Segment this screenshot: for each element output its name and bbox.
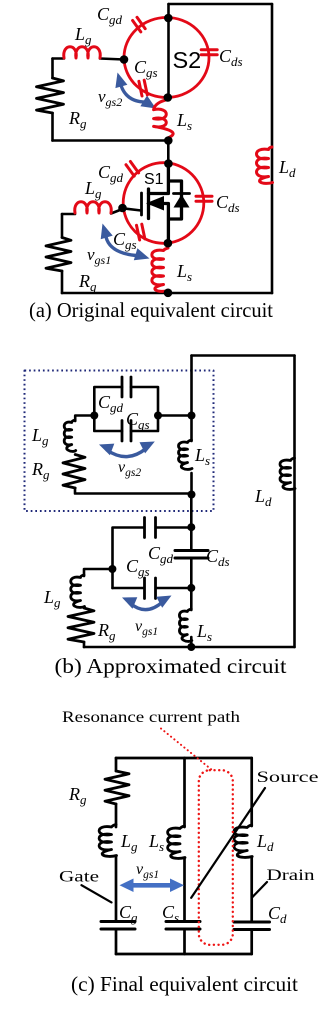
wire left node to Lg (b upper) bbox=[75, 416, 94, 422]
svg-text:Source: Source bbox=[257, 769, 319, 786]
wire S2 block spine bbox=[190, 356, 193, 496]
svg-text:Cgd: Cgd bbox=[97, 4, 123, 27]
svg-text:Cg: Cg bbox=[119, 902, 138, 925]
inductor Lg (b upper) bbox=[64, 420, 76, 451]
wire right rail (drain) bbox=[271, 4, 274, 293]
wire right rail (b) bbox=[293, 356, 296, 648]
node at (191.5,415.5) bbox=[188, 412, 196, 420]
svg-text:Lg: Lg bbox=[31, 425, 49, 448]
svg-text:Cgd: Cgd bbox=[98, 392, 124, 415]
wire gate node to spine (b upper) bbox=[158, 414, 192, 417]
wire spine between blocks (b) bbox=[190, 495, 193, 527]
svg-text:Cd: Cd bbox=[268, 903, 287, 926]
svg-text:vgs2: vgs2 bbox=[118, 459, 141, 479]
node at (167.9,243.2) bbox=[164, 239, 173, 248]
svg-text:Cds: Cds bbox=[216, 192, 240, 215]
capacitor Cgs loop (b upper) bbox=[94, 416, 158, 432]
wire S2 source return bbox=[53, 139, 169, 142]
svg-text:Ls: Ls bbox=[194, 445, 210, 468]
svg-text:Ls: Ls bbox=[196, 621, 212, 644]
svg-text:vgs2: vgs2 bbox=[98, 87, 122, 109]
svg-text:Lg: Lg bbox=[74, 24, 92, 47]
resistor Rg (b upper) bbox=[63, 455, 85, 489]
svg-text:Rg: Rg bbox=[97, 620, 116, 643]
capacitor Cgs branch (b lower) bbox=[113, 587, 192, 590]
svg-text:Cds: Cds bbox=[206, 546, 230, 569]
inductor Ls (b lower) bbox=[179, 609, 191, 641]
capacitor Cs bbox=[166, 920, 200, 923]
svg-text:(b) Approximated circuit: (b) Approximated circuit bbox=[55, 654, 287, 678]
svg-text:(a) Original equivalent circui: (a) Original equivalent circuit bbox=[29, 298, 273, 322]
wire S2 gate lead top-left bbox=[53, 59, 125, 60]
node at (191.3,587.9) bbox=[187, 584, 195, 592]
inductor Ls (upper) bbox=[154, 100, 174, 138]
svg-text:Rg: Rg bbox=[78, 271, 97, 294]
inductor Ld (c) bbox=[234, 825, 252, 857]
arrow vgs1 bbox=[101, 224, 150, 261]
resistor Rg (c) bbox=[105, 771, 129, 804]
node at (191.3,647) bbox=[187, 643, 195, 651]
wire between S2 source node and S1 drain node bbox=[167, 141, 170, 164]
node at (168.4,163.6) bbox=[164, 159, 173, 168]
node at (124,59.5) bbox=[120, 55, 129, 64]
resistor Rg (upper) bbox=[37, 78, 64, 113]
svg-text:Ld: Ld bbox=[256, 831, 274, 854]
svg-text:Ld: Ld bbox=[278, 157, 296, 180]
inductor Ls (b upper) bbox=[179, 440, 193, 469]
svg-text:Ls: Ls bbox=[148, 831, 164, 854]
node at (112.4,569) bbox=[108, 565, 116, 573]
capacitor Cgd (S2) bbox=[137, 17, 145, 28]
capacitor Cds (b lower) bbox=[190, 527, 193, 588]
inductor Ld (b) bbox=[280, 458, 295, 489]
transistor S1 MOSFET body bbox=[125, 164, 190, 243]
svg-text:Cgs: Cgs bbox=[126, 556, 150, 579]
svg-text:Lg: Lg bbox=[43, 587, 61, 610]
capacitor Cgs (S2) bbox=[144, 80, 147, 95]
capacitor Cg bbox=[101, 920, 135, 923]
svg-text:vgs1: vgs1 bbox=[135, 618, 158, 638]
svg-text:Rg: Rg bbox=[68, 784, 87, 807]
inductor Lg (upper) bbox=[64, 47, 101, 58]
capacitor Cgs (S1) bbox=[142, 224, 145, 239]
node at (94.3,415.5) bbox=[90, 412, 98, 420]
resistor Rg (b lower) bbox=[68, 608, 94, 642]
node at (168.3,140.5) bbox=[164, 136, 173, 145]
wire S1 left branch verticals bbox=[61, 214, 64, 293]
capacitor Cgd branch (b lower) bbox=[113, 528, 192, 589]
wire bottom rail bbox=[62, 292, 272, 295]
svg-text:Cgd: Cgd bbox=[98, 162, 124, 185]
inductor Ls (lower) bbox=[152, 248, 169, 291]
node at (167.8,97.5) bbox=[164, 93, 173, 102]
arrow vgs1 (b) bbox=[122, 596, 172, 610]
inductor Lg (lower) bbox=[75, 202, 112, 213]
svg-text:(c) Final equivalent circuit: (c) Final equivalent circuit bbox=[71, 972, 298, 996]
capacitor Cd bbox=[234, 921, 270, 924]
inductor Ld bbox=[257, 147, 273, 183]
svg-text:Cgd: Cgd bbox=[148, 543, 174, 566]
wire S2 left branch verticals bbox=[51, 59, 54, 141]
wire gate stub (b lower) bbox=[84, 569, 113, 576]
arrow vgs2 bbox=[115, 73, 156, 109]
svg-text:Cds: Cds bbox=[219, 46, 243, 69]
svg-text:Lg: Lg bbox=[120, 831, 138, 854]
node at (191.3,527.2) bbox=[187, 523, 195, 531]
svg-text:Rg: Rg bbox=[68, 108, 87, 131]
svg-text:Drain: Drain bbox=[267, 867, 315, 884]
wire top rail (b) bbox=[192, 354, 295, 357]
dotted box around upper switch model bbox=[25, 371, 214, 512]
svg-text:Ld: Ld bbox=[254, 486, 272, 509]
wire S2 vertical chord through switch bbox=[167, 4, 170, 98]
wire S1 gate lead bbox=[62, 209, 123, 214]
inductor Ls (c) bbox=[168, 826, 185, 858]
node at (168,292.8) bbox=[164, 289, 173, 298]
svg-text:Resonance current path: Resonance current path bbox=[62, 709, 240, 726]
svg-text:Ls: Ls bbox=[176, 261, 192, 284]
resistor Rg (lower) bbox=[46, 238, 71, 272]
wire right branch (drain) bbox=[250, 758, 253, 954]
svg-text:Cs: Cs bbox=[162, 902, 179, 925]
wire middle branch (source) bbox=[183, 758, 186, 954]
resonance current path dotted outline bbox=[199, 770, 233, 945]
switch S1 circle bbox=[123, 163, 204, 244]
wire top from S2 drain node to right rail bbox=[169, 3, 273, 6]
wire bottom rail (b) bbox=[84, 646, 295, 649]
svg-text:Cgs: Cgs bbox=[113, 229, 137, 252]
capacitor Cgd (S1) bbox=[130, 162, 138, 173]
node at (122.5,208) bbox=[118, 204, 127, 213]
node at (168.3,18) bbox=[164, 14, 173, 23]
svg-text:Cgs: Cgs bbox=[134, 57, 158, 80]
svg-text:vgs1: vgs1 bbox=[87, 245, 111, 267]
capacitor Cds (S1) bbox=[196, 195, 212, 198]
wire block bottom (b upper) bbox=[75, 488, 192, 494]
inductor Lg (c) bbox=[99, 825, 116, 857]
wire left branch (gate) bbox=[115, 758, 118, 954]
arrow vgs1 (c) bbox=[120, 879, 185, 893]
switch S2 circle bbox=[124, 18, 209, 98]
arrow vgs2 (b) bbox=[99, 442, 155, 457]
inductor Lg (b lower) bbox=[71, 575, 85, 607]
svg-text:vgs1: vgs1 bbox=[136, 861, 159, 881]
svg-text:S2: S2 bbox=[173, 47, 202, 73]
node at (191.5,494.5) bbox=[188, 491, 196, 499]
svg-text:Rg: Rg bbox=[31, 459, 50, 482]
svg-text:S1: S1 bbox=[144, 171, 164, 188]
wire outer loop (c) bbox=[116, 758, 252, 954]
capacitor Cgd loop (b upper) bbox=[94, 387, 158, 416]
wire spine to Ls (b lower) bbox=[190, 588, 193, 610]
capacitor Cds (S2) bbox=[201, 48, 217, 51]
svg-text:Gate: Gate bbox=[59, 869, 99, 886]
node at (158,415.5) bbox=[154, 412, 162, 420]
svg-text:Cgs: Cgs bbox=[126, 409, 150, 432]
svg-text:Ls: Ls bbox=[176, 110, 192, 133]
leader dotted line to resonance path bbox=[161, 729, 212, 771]
